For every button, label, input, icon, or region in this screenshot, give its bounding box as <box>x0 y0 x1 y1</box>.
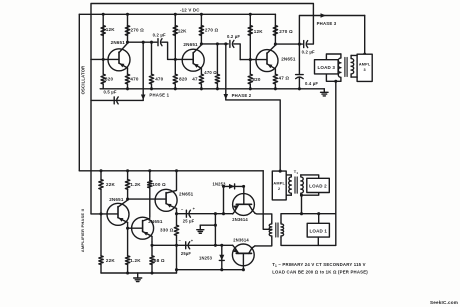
wire diode1 left vertical <box>223 186 225 213</box>
wire stage3 collector line <box>275 43 302 45</box>
wire diode2 vertical <box>221 245 223 269</box>
transistor 2N651 stage3 <box>256 45 278 74</box>
resistor 1.2K lower <box>125 256 129 265</box>
transistor 2N651 Q2 lower <box>132 217 154 242</box>
transformer T3 right winding <box>351 55 354 77</box>
svg-text:270 Ω: 270 Ω <box>279 29 293 34</box>
junction 1.2K-botrail <box>126 271 129 274</box>
svg-text:AMPLIFIER PHASE II: AMPLIFIER PHASE II <box>80 209 85 252</box>
wire 1.2K top column <box>127 171 129 180</box>
resistor 12K stage3 <box>248 26 252 36</box>
label 2N651 Q2 lower <box>148 219 163 224</box>
label 1.2K lower <box>130 258 141 263</box>
svg-text:12K: 12K <box>254 29 263 34</box>
box AMPL 3 <box>357 54 372 81</box>
junction rail 1.2K <box>126 169 129 172</box>
junction sec top LOAD1 link <box>317 212 320 215</box>
svg-text:LOAD 3: LOAD 3 <box>317 65 335 70</box>
wire 25uF2 line <box>152 244 233 246</box>
label 100ohm <box>152 182 166 187</box>
label 68ohm <box>154 258 165 263</box>
wire stage2 base divider lower <box>174 59 176 74</box>
capacitor 25uF C4 <box>186 210 190 217</box>
label 25uF C4 <box>183 219 195 224</box>
node PHASE 3 tap junction <box>298 43 301 46</box>
wire stage2 bias column <box>174 14 176 59</box>
svg-text:2N3614: 2N3614 <box>233 238 249 243</box>
resistor 470 shunt R2 wire <box>216 44 218 74</box>
wire left supply drop to lower amplifier rail <box>78 14 80 171</box>
label 12K stage2 <box>178 29 187 34</box>
wire 820 to rail stage3 <box>249 84 251 89</box>
transistor 2N651 stage2 <box>182 45 204 74</box>
svg-text:0.2 µF: 0.2 µF <box>302 49 315 54</box>
svg-text:PHASE 1: PHASE 1 <box>149 92 169 97</box>
junction Q5 base-return <box>242 268 245 271</box>
label 2N651 Q1 lower <box>109 197 124 202</box>
wire 1.2K lower column <box>127 228 129 256</box>
junction AMPL2 top <box>279 170 282 173</box>
label note line2 <box>272 270 368 275</box>
resistor 470 shunt R2 <box>215 74 219 83</box>
wire stage1 base wire <box>91 58 118 60</box>
label PHASE 1 <box>149 92 169 97</box>
label 2N651 stage3 <box>281 56 296 61</box>
svg-text:330 Ω: 330 Ω <box>160 228 174 233</box>
ground right end of rail <box>321 89 329 96</box>
junction 820-rail stage2 <box>174 87 177 90</box>
wire phase2 to AMPL2 <box>226 100 280 171</box>
label OSCILLATOR <box>81 66 86 95</box>
wire 470 shunt R1 to rail <box>151 84 153 89</box>
svg-text:22K: 22K <box>106 182 115 187</box>
capacitor 0.2uF C1 <box>158 39 162 46</box>
label 470 shunt R1 <box>155 77 163 82</box>
label 0.4uF <box>305 81 318 86</box>
svg-text:LOAD CAN BE 200 Ω to 1K Ω (P: LOAD CAN BE 200 Ω to 1K Ω (PER PHASE) <box>272 270 368 275</box>
label LOAD 2 <box>309 184 327 189</box>
label 0.2uF C3 <box>302 49 315 54</box>
wire 1.2K to collector node <box>127 189 129 199</box>
box LOAD 1 <box>307 223 329 237</box>
wire 820 to rail stage2 <box>174 84 176 89</box>
arrow PHASE 3 <box>321 13 327 18</box>
ground bias <box>197 225 204 233</box>
wire T1low secondary top <box>281 214 336 223</box>
svg-text:2N3614: 2N3614 <box>232 217 248 222</box>
label 22K upper <box>106 182 115 187</box>
svg-text:+: + <box>191 238 194 243</box>
transistor 2N3614 Q5 <box>232 244 254 270</box>
junction stage2 collector <box>200 42 203 45</box>
wire LOAD3 loop top <box>326 54 341 60</box>
svg-text:PHASE 3: PHASE 3 <box>317 21 337 26</box>
junction diode2 bottom <box>220 268 223 271</box>
wire PHASE 1 tap vertical <box>142 42 144 100</box>
transformer T1 left winding <box>289 175 292 195</box>
junction bias vert bottom <box>214 244 217 247</box>
wire lower ground rail <box>101 272 177 274</box>
wire 22K to base <box>100 189 102 214</box>
svg-text:2N651: 2N651 <box>179 191 194 196</box>
wire secondary chain right vertical <box>335 81 337 213</box>
label 2N651 Q3 lower <box>179 191 194 196</box>
label 12K stage3 <box>254 29 263 34</box>
junction Q2em-capwire <box>150 244 153 247</box>
svg-text:25 µF: 25 µF <box>183 219 195 224</box>
wire 22K lower to rail <box>100 265 102 273</box>
transformer T1low right winding <box>281 222 284 237</box>
wire oscillator ground rail <box>100 88 324 90</box>
svg-text:AMPL: AMPL <box>273 182 285 186</box>
svg-text:270 Ω: 270 Ω <box>205 27 219 32</box>
label AMPLIFIER PHASE II <box>80 209 85 252</box>
resistor 100ohm <box>148 181 152 188</box>
label 1N253 D2 <box>199 255 213 260</box>
label AMPL 3 <box>359 63 371 72</box>
transformer T1low left winding <box>269 222 272 237</box>
wire LOAD2 loop bottom <box>301 193 319 196</box>
label PHASE 3 <box>317 21 337 26</box>
svg-text:2N651: 2N651 <box>111 40 126 45</box>
label 12K stage1 <box>106 27 115 32</box>
label 820 stage1 <box>105 77 113 82</box>
label 270ohm stage1 <box>131 27 145 32</box>
wire LOAD2 to secondary chain <box>301 195 303 214</box>
svg-text:820: 820 <box>252 77 260 82</box>
resistor emitter stage2 <box>199 74 203 84</box>
label PHASE 2 <box>232 93 252 98</box>
junction LOAD2 loop bottom <box>300 194 303 197</box>
label 2N3614 Q5 <box>233 238 249 243</box>
wire stage3 collector column top <box>274 14 276 44</box>
wire rail to T1low center tap <box>263 171 272 230</box>
resistor 820 stage3 <box>248 74 252 84</box>
wire stage2 collector line <box>201 43 228 45</box>
wire phase-3 feedback top line <box>91 4 313 60</box>
resistor 470 shunt R1 wire <box>151 42 153 74</box>
junction diode1 left <box>222 185 225 188</box>
label 25uF C5 <box>181 251 192 256</box>
junction Q2 base node <box>126 227 129 230</box>
arrow PHASE 1 <box>141 95 146 101</box>
transistor 2N651 Q3 lower <box>155 189 177 214</box>
label 2N3614 Q4 <box>232 217 248 222</box>
label 820 stage2 <box>179 77 187 82</box>
transformer T3 left winding <box>338 54 341 81</box>
junction rail 22K <box>99 169 102 172</box>
junction rail-12K stage1 <box>102 13 105 16</box>
junction 470-2-rail <box>216 87 219 90</box>
junction rail-270 stage2 <box>200 13 203 16</box>
label emitter R stage3 <box>279 75 290 80</box>
wire stage3 base divider lower <box>249 60 251 75</box>
wire stage1 collector column top <box>127 14 129 42</box>
wire PHASE 3 tap up <box>299 16 364 45</box>
wire 820 to rail stage1 <box>102 84 104 89</box>
label 470 shunt R2 <box>204 70 217 75</box>
junction LOAD3 loop bottom <box>334 80 337 83</box>
wire emitter R to ground rail stage3 <box>274 84 276 89</box>
resistor 820 stage2 <box>173 74 177 84</box>
wire emitter R to ground rail stage1 <box>127 84 129 89</box>
label 1N253 D1 <box>213 181 227 186</box>
junction 330-cap2wire <box>175 244 178 247</box>
label 0.5uF <box>104 89 117 94</box>
svg-text:2: 2 <box>278 187 280 191</box>
wire Q5 base return <box>177 269 244 271</box>
transformer T1low core <box>276 223 278 237</box>
wire 0.4uF top <box>298 44 300 75</box>
box AMPL 2 <box>272 171 286 200</box>
transformer T1 right winding <box>301 175 304 195</box>
junction rail-270 stage1 <box>126 13 129 16</box>
wire 0.5uF line <box>91 99 143 101</box>
svg-text:0.2 µF: 0.2 µF <box>153 33 166 38</box>
svg-text:0.5 µF: 0.5 µF <box>104 89 117 94</box>
svg-text:12K: 12K <box>106 27 115 32</box>
svg-text:1N253: 1N253 <box>199 255 213 260</box>
label emitter R stage1 <box>130 77 138 82</box>
box LOAD 3 <box>315 60 339 74</box>
svg-text:25µF: 25µF <box>181 251 192 256</box>
capacitor 0.5uF <box>114 97 118 104</box>
label LOAD 3 <box>317 65 335 70</box>
junction emitter-rail stage3 <box>274 87 277 90</box>
svg-text:2N651: 2N651 <box>281 56 296 61</box>
svg-text:0.4 µF: 0.4 µF <box>305 81 318 86</box>
label watermark <box>430 300 458 305</box>
junction 330-return <box>175 268 178 271</box>
junction AMPL3 top <box>363 53 366 56</box>
resistor 22K upper <box>99 180 103 190</box>
svg-text:OSCILLATOR: OSCILLATOR <box>81 66 86 95</box>
svg-text:SeekIC.com: SeekIC.com <box>430 300 458 305</box>
wire PHASE 2 tap vertical <box>225 44 227 100</box>
wire lower amp supply rail <box>79 170 263 172</box>
label 22K lower <box>106 258 115 263</box>
wire C1 to stage2 base <box>162 42 168 59</box>
junction 0.4uF-rail <box>298 87 301 90</box>
label note line1 <box>272 262 366 268</box>
svg-text:LOAD 2: LOAD 2 <box>309 184 327 189</box>
diode 1N253 D2 <box>219 255 224 261</box>
resistor 820 stage1 <box>101 74 105 84</box>
junction emitter-rail stage2 <box>200 87 203 90</box>
junction stage3 collector <box>274 43 277 46</box>
svg-text:T1 – PRIMARY 24 V CT SECONDA: T1 – PRIMARY 24 V CT SECONDARY 115 V <box>272 262 366 268</box>
junction Q3em-cap1wire <box>175 212 178 215</box>
label plus C4 <box>193 206 196 211</box>
resistor 1.2K upper <box>125 180 129 190</box>
junction sec top LOAD2 link <box>300 212 303 215</box>
resistor 270ohm stage3 <box>273 26 277 36</box>
label 820 stage3 <box>252 77 260 82</box>
label 330ohm <box>160 228 174 233</box>
wire C2 to stage3 base <box>234 44 240 60</box>
transformer T3 core <box>345 58 347 77</box>
wire stage2 base wire <box>168 58 193 60</box>
arrow PHASE 2 <box>224 94 229 100</box>
node PHASE 1 tap junction <box>142 41 145 44</box>
wire 22K lower column <box>100 214 102 256</box>
wire stage3 bias column <box>249 14 251 59</box>
wire T3 secondary top stub <box>351 54 357 56</box>
wire -12V DC top supply rail <box>79 13 275 15</box>
svg-text:AMPL: AMPL <box>359 63 371 67</box>
wire phase3 to AMPL3 <box>364 16 366 55</box>
diode 1N253 D1 <box>229 184 235 189</box>
box LOAD 2 <box>307 178 330 192</box>
label 2N651 stage1 <box>111 40 126 45</box>
svg-text:270 Ω: 270 Ω <box>131 27 145 32</box>
wire 0.4uF bottom <box>298 77 300 89</box>
resistor 270ohm stage1 <box>125 26 129 36</box>
resistor 470 shunt R1 <box>149 74 153 84</box>
svg-text:PHASE 2: PHASE 2 <box>232 93 252 98</box>
junction 820-rail stage3 <box>249 87 252 90</box>
wire Q5 collector to T1low primary bottom <box>255 237 272 246</box>
svg-text:2N651: 2N651 <box>183 42 198 47</box>
svg-text:470: 470 <box>155 77 163 82</box>
ground lower amp <box>134 273 142 282</box>
svg-text:1N253: 1N253 <box>213 181 227 186</box>
wire LOAD3 loop bottom <box>326 74 341 81</box>
wire stage1 bias column <box>102 14 104 59</box>
label 2N651 stage2 <box>183 42 198 47</box>
svg-text:T1: T1 <box>294 169 299 175</box>
svg-text:0.2 µF: 0.2 µF <box>227 34 240 39</box>
junction base-bias stage1 <box>102 58 105 61</box>
node PHASE 2 tap junction <box>224 42 227 45</box>
wire LOAD1 bottom stub <box>317 237 319 245</box>
wire bias ground stub <box>200 224 215 226</box>
svg-text:820: 820 <box>105 77 113 82</box>
resistor 12K stage2 <box>173 26 177 36</box>
svg-text:2N651: 2N651 <box>148 219 163 224</box>
label 0.2uF C1 <box>153 33 166 38</box>
capacitor 25uF C5 <box>186 242 190 249</box>
junction bias-ground <box>214 224 217 227</box>
capacitor 0.4uF <box>296 75 304 79</box>
svg-text:1.2K: 1.2K <box>130 258 141 263</box>
svg-text:470 Ω: 470 Ω <box>204 70 217 75</box>
wire T1low secondary bottom <box>281 237 336 245</box>
resistor emitter stage1 <box>125 74 129 84</box>
wire Q1low collector to Q3 base line <box>128 198 166 200</box>
capacitor 0.2uF C2 <box>230 40 234 47</box>
svg-text:−: − <box>179 238 182 243</box>
junction diode1 right <box>242 185 245 188</box>
svg-text:-12 V DC: -12 V DC <box>180 7 200 12</box>
wire bias vertical <box>214 214 216 246</box>
label 1.2K upper <box>130 182 141 187</box>
svg-text:470: 470 <box>130 77 138 82</box>
svg-text:47: 47 <box>192 77 198 82</box>
wire C3 output up <box>308 16 314 45</box>
junction emitter-rail stage1 <box>126 87 129 90</box>
junction rail-12K stage3 <box>249 13 252 16</box>
wire 1.2K lower to rail <box>127 265 129 273</box>
svg-text:1.2K: 1.2K <box>130 182 141 187</box>
wire Q4 collector to T1low primary top <box>255 213 272 222</box>
wire oscillator input vertical down to lower amp <box>90 59 92 214</box>
svg-text:68 Ω: 68 Ω <box>154 258 165 263</box>
junction diode2 top <box>220 244 223 247</box>
junction rail 100 <box>148 169 151 172</box>
junction rail-12K stage2 <box>174 13 177 16</box>
wire T3 secondary bottom stub <box>351 76 357 78</box>
svg-text:47 Ω: 47 Ω <box>279 75 290 80</box>
wire 100ohm to Q2 collector <box>149 188 151 218</box>
junction 68-botrail <box>150 271 153 274</box>
resistor 68ohm <box>150 256 154 265</box>
wire secondary right edge <box>335 214 337 246</box>
label LOAD 1 <box>309 228 327 233</box>
label 270ohm stage2 <box>205 27 219 32</box>
capacitor 0.2uF C3 <box>304 41 308 48</box>
label -12 V DC <box>180 7 200 12</box>
wire Q2 emitter column <box>151 242 153 256</box>
wire stage2 collector column top <box>200 14 202 44</box>
transistor 2N651 stage1 <box>108 43 130 74</box>
junction diode1 bottom <box>222 212 225 215</box>
svg-text:820: 820 <box>179 77 187 82</box>
wire 68 to rail <box>151 265 153 273</box>
svg-text:100 Ω: 100 Ω <box>152 182 166 187</box>
wire 100ohm top column <box>149 171 151 181</box>
wire stage3 base wire <box>240 59 266 61</box>
junction 470 shunt top stage1 <box>150 41 153 44</box>
resistor 12K stage1 <box>101 26 105 36</box>
wire Q1low emitter to Q2 base <box>128 227 142 229</box>
resistor emitter stage3 <box>273 74 277 84</box>
transistor 2N3614 Q4 <box>233 186 255 215</box>
junction base-bias stage3 <box>249 58 252 61</box>
label minus C4 <box>181 206 184 211</box>
wire T1 primary top stub <box>286 174 291 176</box>
wire Q1low base <box>91 213 117 215</box>
junction Q1low collector node <box>126 198 129 201</box>
transistor 2N651 Q1 lower <box>107 200 129 228</box>
wire stage1 base divider lower <box>102 59 104 74</box>
svg-text:LOAD 1: LOAD 1 <box>309 228 327 233</box>
junction 470 shunt top stage2 <box>216 42 219 45</box>
wire LOAD1 top stub <box>318 214 320 224</box>
transformer T1 core <box>295 177 297 193</box>
svg-text:+: + <box>193 206 196 211</box>
resistor 330ohm <box>174 225 178 235</box>
svg-text:2N651: 2N651 <box>109 197 124 202</box>
junction bias vert top <box>214 212 217 215</box>
label plus C5 <box>191 238 194 243</box>
label emitter R stage2 <box>192 77 198 82</box>
label minus C5 <box>179 238 182 243</box>
resistor 22K lower <box>99 256 103 265</box>
svg-text:22K: 22K <box>106 258 115 263</box>
wire Q3low collector to rail <box>176 171 178 190</box>
junction 470-rail <box>150 87 153 90</box>
wire LOAD2 loop top <box>301 175 319 178</box>
label AMPL 2 <box>273 182 285 191</box>
label T1 <box>294 169 299 175</box>
resistor 330ohm wire top <box>176 214 178 225</box>
wire 22K top column <box>100 171 102 180</box>
resistor 270ohm stage2 <box>199 26 203 36</box>
wire stage1 collector line <box>128 41 157 43</box>
junction base Q1low <box>99 212 102 215</box>
label 270ohm stage3 <box>279 29 293 34</box>
